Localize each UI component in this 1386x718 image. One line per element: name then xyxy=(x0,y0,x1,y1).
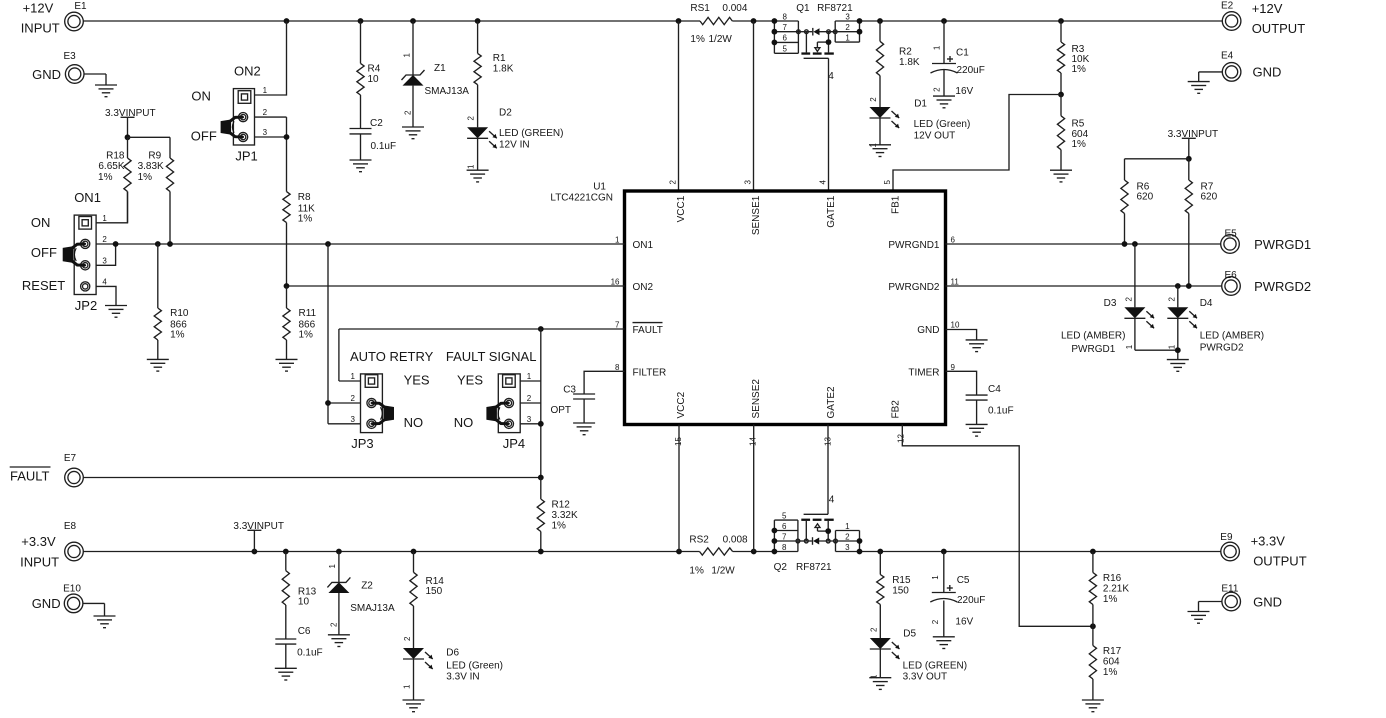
svg-text:JP1: JP1 xyxy=(235,149,257,164)
svg-text:3.3V IN: 3.3V IN xyxy=(446,671,479,682)
turret E11 GND xyxy=(1199,583,1282,611)
ground at R5 xyxy=(1050,170,1072,182)
svg-text:1: 1 xyxy=(403,53,412,58)
zener Z1 SMAJ13A xyxy=(402,21,470,127)
LED D3 PWRGD1 xyxy=(1061,244,1178,355)
svg-text:LED (GREEN): LED (GREEN) xyxy=(499,128,563,139)
wire U1 pin 10 GND xyxy=(946,330,977,340)
LED D4 PWRGD2 xyxy=(1167,286,1264,360)
svg-text:1: 1 xyxy=(845,522,850,531)
svg-text:2: 2 xyxy=(330,622,339,627)
LED D5 3.3V OUT xyxy=(870,627,968,683)
svg-text:LED (AMBER): LED (AMBER) xyxy=(1061,331,1125,342)
resistor R8 11K 1% xyxy=(283,192,315,286)
ground at D2 xyxy=(467,170,489,182)
node 3.3VINPUT label bottom xyxy=(233,521,284,552)
svg-text:1%: 1% xyxy=(98,172,113,183)
svg-text:3: 3 xyxy=(845,543,850,552)
svg-text:10: 10 xyxy=(368,74,380,85)
resistor RS1 0.004 1% 1/2W xyxy=(690,3,747,45)
wire TIMER net pin 9 xyxy=(946,371,977,395)
ground at Z1 xyxy=(402,127,424,139)
wire VCC1 stub pin 2 xyxy=(678,21,680,190)
ground at E4 xyxy=(1188,82,1210,94)
svg-text:Q1: Q1 xyxy=(796,3,810,14)
svg-text:1%: 1% xyxy=(1103,594,1118,605)
ground at U1 pin 10 xyxy=(966,340,988,352)
svg-text:7: 7 xyxy=(782,532,787,541)
ground at Z2 xyxy=(328,635,350,647)
resistor R10 866 1% xyxy=(154,244,189,359)
svg-text:1/2W: 1/2W xyxy=(709,34,733,45)
LED D1 12V OUT xyxy=(869,97,970,148)
svg-text:2: 2 xyxy=(669,180,678,185)
turret E3 GND xyxy=(32,51,106,85)
svg-text:Q2: Q2 xyxy=(774,562,788,573)
svg-text:R5: R5 xyxy=(1072,119,1085,130)
svg-text:VCC1: VCC1 xyxy=(676,195,687,222)
svg-text:2: 2 xyxy=(527,394,532,403)
svg-text:10: 10 xyxy=(951,321,960,330)
svg-text:+12V: +12V xyxy=(23,1,54,16)
jumper JP4 FAULT SIGNAL xyxy=(446,349,537,451)
svg-text:3: 3 xyxy=(845,12,850,21)
svg-text:8: 8 xyxy=(782,12,787,21)
wire JP2 pin3 to ON1 net xyxy=(96,244,116,265)
svg-text:3: 3 xyxy=(351,415,356,424)
svg-text:0.1uF: 0.1uF xyxy=(371,141,397,152)
wire +12V output rail xyxy=(860,18,1223,24)
ground at D5 xyxy=(869,678,891,690)
svg-text:SMAJ13A: SMAJ13A xyxy=(425,86,470,97)
ground at C6 xyxy=(275,668,297,680)
svg-text:SENSE1: SENSE1 xyxy=(751,195,762,235)
svg-text:E3: E3 xyxy=(64,51,77,62)
svg-text:PWRGD1: PWRGD1 xyxy=(1254,237,1311,252)
svg-text:7: 7 xyxy=(615,321,620,330)
svg-text:220uF: 220uF xyxy=(957,65,985,76)
node 3.3VINPUT label left xyxy=(105,108,170,140)
svg-text:FAULT SIGNAL: FAULT SIGNAL xyxy=(446,349,537,364)
svg-text:PWRGND2: PWRGND2 xyxy=(888,282,940,293)
svg-text:16: 16 xyxy=(611,278,620,287)
capacitor C1 220uF 16V xyxy=(931,21,985,97)
svg-text:3: 3 xyxy=(102,256,107,265)
svg-text:INPUT: INPUT xyxy=(20,554,59,569)
svg-text:R2: R2 xyxy=(899,47,912,58)
svg-text:6: 6 xyxy=(782,34,787,43)
svg-text:RF8721: RF8721 xyxy=(796,562,832,573)
svg-text:16V: 16V xyxy=(955,616,973,627)
wire +12V input rail xyxy=(83,18,774,24)
wire JP2 pin1 to R18 xyxy=(96,192,127,223)
svg-text:12V OUT: 12V OUT xyxy=(914,131,956,142)
U1 pin numbers xyxy=(611,180,960,447)
svg-text:2: 2 xyxy=(467,116,476,121)
U1 left pin names xyxy=(633,240,667,379)
Q1 MOSFET body xyxy=(797,28,838,55)
svg-text:3.32K: 3.32K xyxy=(552,510,578,521)
svg-text:OFF: OFF xyxy=(191,129,217,144)
svg-text:D6: D6 xyxy=(446,648,459,659)
svg-text:LED (AMBER): LED (AMBER) xyxy=(1200,331,1264,342)
svg-text:7: 7 xyxy=(782,23,787,32)
svg-text:C3: C3 xyxy=(563,385,576,396)
svg-text:R17: R17 xyxy=(1103,646,1122,657)
resistor R18 6.65K 1% xyxy=(98,137,131,223)
ground at R17 xyxy=(1082,700,1104,712)
wire +3.3V input rail xyxy=(83,549,774,555)
wire +3.3V output rail xyxy=(860,549,1221,555)
resistor R1 1.8K xyxy=(474,21,514,127)
svg-text:1: 1 xyxy=(1125,344,1134,349)
svg-text:10: 10 xyxy=(298,596,310,607)
wire FAULT turret net xyxy=(83,475,543,481)
svg-text:1/2W: 1/2W xyxy=(711,566,735,577)
svg-text:1: 1 xyxy=(403,684,412,689)
svg-text:FAULT: FAULT xyxy=(10,469,50,484)
node 3.3VINPUT label right xyxy=(1125,129,1219,180)
svg-text:E2: E2 xyxy=(1221,1,1234,12)
svg-text:+3.3V: +3.3V xyxy=(1251,534,1286,549)
turret E1 +12V INPUT xyxy=(21,1,87,36)
wire JP2 pin4 to ground xyxy=(96,286,116,305)
svg-text:GND: GND xyxy=(32,596,61,611)
svg-text:R16: R16 xyxy=(1103,573,1122,584)
svg-text:R15: R15 xyxy=(892,575,911,586)
svg-text:1: 1 xyxy=(527,372,532,381)
svg-text:ON2: ON2 xyxy=(234,64,261,79)
svg-text:16V: 16V xyxy=(955,86,973,97)
svg-text:3.83K: 3.83K xyxy=(138,161,164,172)
svg-text:PWRGND1: PWRGND1 xyxy=(888,240,940,251)
Q2 source bus pins 5,6,7,8 xyxy=(772,511,798,554)
resistor R11 866 1% xyxy=(283,286,317,359)
ground at D1 xyxy=(869,145,891,157)
wire FB1 net xyxy=(893,95,1061,191)
svg-text:FAULT: FAULT xyxy=(633,325,663,336)
svg-text:GND: GND xyxy=(32,67,61,82)
wire PWRGD2 net xyxy=(946,283,1222,289)
svg-text:E10: E10 xyxy=(63,584,81,595)
svg-text:FILTER: FILTER xyxy=(633,368,667,379)
svg-text:4: 4 xyxy=(829,495,835,506)
svg-text:ON1: ON1 xyxy=(633,240,654,251)
svg-text:E7: E7 xyxy=(64,453,77,464)
svg-text:0.008: 0.008 xyxy=(723,534,748,545)
svg-text:+12V: +12V xyxy=(1252,1,1283,16)
svg-text:2: 2 xyxy=(1125,297,1134,302)
svg-text:INPUT: INPUT xyxy=(21,21,60,36)
svg-text:GND: GND xyxy=(1253,65,1282,80)
svg-text:C6: C6 xyxy=(298,626,311,637)
svg-text:150: 150 xyxy=(892,586,909,597)
LED D6 3.3V IN xyxy=(403,636,503,700)
svg-text:RESET: RESET xyxy=(22,278,65,293)
svg-text:RS1: RS1 xyxy=(690,3,710,14)
svg-text:JP2: JP2 xyxy=(75,298,97,313)
svg-text:4: 4 xyxy=(819,180,828,185)
wire PWRGD1 net xyxy=(946,241,1221,247)
svg-text:4: 4 xyxy=(102,277,107,286)
svg-text:D4: D4 xyxy=(1200,298,1213,309)
svg-text:1%: 1% xyxy=(1072,139,1087,150)
ground at E3 xyxy=(95,85,117,97)
capacitor C2 0.1uF xyxy=(350,118,397,160)
svg-text:E9: E9 xyxy=(1220,532,1233,543)
svg-text:1: 1 xyxy=(467,164,476,169)
svg-text:D3: D3 xyxy=(1104,298,1117,309)
resistor R13 10 xyxy=(282,552,316,640)
svg-text:D5: D5 xyxy=(903,629,916,640)
svg-text:1%: 1% xyxy=(170,330,185,341)
op-amp U1 LTC4221CGN hot swap controller body xyxy=(550,182,945,425)
svg-text:2.21K: 2.21K xyxy=(1103,584,1129,595)
svg-text:2: 2 xyxy=(263,108,268,117)
ground at R10 xyxy=(147,359,169,371)
svg-text:5: 5 xyxy=(782,45,787,54)
svg-text:3.3V OUT: 3.3V OUT xyxy=(903,672,947,683)
svg-text:E4: E4 xyxy=(1221,51,1234,62)
turret E2 +12V OUTPUT xyxy=(1221,1,1305,37)
wire GATE2 stub pin 13 xyxy=(827,425,829,515)
svg-text:ON2: ON2 xyxy=(633,282,654,293)
wire SENSE2 stub pin 14 xyxy=(753,425,755,552)
wire JP3 pins 2,3 to ON1 net xyxy=(325,244,360,424)
ground at C1 xyxy=(933,96,955,108)
resistor R16 2.21K 1% xyxy=(1089,552,1129,627)
svg-text:ON: ON xyxy=(191,89,211,104)
svg-text:GATE1: GATE1 xyxy=(826,195,837,227)
svg-text:R4: R4 xyxy=(368,64,381,75)
resistor R15 150 xyxy=(877,552,911,639)
svg-text:3: 3 xyxy=(744,180,753,185)
wire FILTER net pin 8 xyxy=(584,371,624,394)
svg-text:GND: GND xyxy=(1253,594,1282,609)
svg-text:ON: ON xyxy=(31,215,51,230)
svg-text:0.1uF: 0.1uF xyxy=(297,647,323,658)
svg-text:R11: R11 xyxy=(299,308,317,319)
wire SENSE1 stub pin 3 xyxy=(753,21,755,190)
svg-text:AUTO RETRY: AUTO RETRY xyxy=(350,349,434,364)
svg-text:1: 1 xyxy=(615,236,620,245)
transistor Q1 RF8721 xyxy=(796,3,853,14)
turret E6 PWRGD2 xyxy=(1222,270,1311,295)
resistor RS2 0.008 1% 1/2W xyxy=(689,534,748,576)
svg-text:NO: NO xyxy=(454,415,474,430)
svg-text:1%: 1% xyxy=(689,566,704,577)
svg-text:2: 2 xyxy=(932,87,941,92)
resistor R12 3.32K 1% xyxy=(537,478,578,552)
Q2 MOSFET body xyxy=(796,519,837,545)
ground at C5 xyxy=(933,637,955,649)
svg-text:3: 3 xyxy=(527,415,532,424)
svg-text:NO: NO xyxy=(404,415,424,430)
svg-text:1%: 1% xyxy=(298,214,313,225)
node FB1 divider junction xyxy=(1058,92,1064,98)
svg-text:Z1: Z1 xyxy=(434,63,446,74)
svg-text:6.65K: 6.65K xyxy=(98,161,124,172)
svg-text:E8: E8 xyxy=(64,521,77,532)
svg-text:620: 620 xyxy=(1137,191,1154,202)
ground at JP2 pin4 xyxy=(105,306,127,318)
svg-text:PWRGD2: PWRGD2 xyxy=(1200,343,1244,354)
svg-text:YES: YES xyxy=(457,373,483,388)
svg-text:2: 2 xyxy=(1167,297,1176,302)
svg-text:2: 2 xyxy=(931,619,940,624)
svg-text:OUTPUT: OUTPUT xyxy=(1252,21,1306,36)
svg-text:R18: R18 xyxy=(106,151,125,162)
wire JP1 pin1 to +12V rail xyxy=(255,21,287,95)
svg-text:JP4: JP4 xyxy=(503,436,525,451)
svg-text:E1: E1 xyxy=(74,1,87,12)
svg-text:1%: 1% xyxy=(138,172,153,183)
svg-text:1.8K: 1.8K xyxy=(899,57,920,68)
svg-text:3: 3 xyxy=(263,128,268,137)
svg-text:1: 1 xyxy=(932,45,941,50)
svg-text:0.1uF: 0.1uF xyxy=(988,406,1014,417)
resistor R5 604 1% xyxy=(1057,95,1088,171)
svg-text:12V IN: 12V IN xyxy=(499,139,530,150)
ground at C4 xyxy=(966,424,988,436)
ground at C3 xyxy=(573,423,595,435)
svg-text:220uF: 220uF xyxy=(957,595,985,606)
wire JP1 pins 2,3 to R8 xyxy=(255,117,290,192)
ground at C2 xyxy=(350,160,372,172)
svg-text:FB1: FB1 xyxy=(891,195,902,214)
wire FAULT net pin 7 xyxy=(339,326,625,381)
svg-text:D2: D2 xyxy=(499,108,512,119)
wire VCC2 stub pin 15 xyxy=(678,425,680,552)
svg-text:R12: R12 xyxy=(552,500,571,511)
svg-text:1: 1 xyxy=(931,575,940,580)
svg-text:C5: C5 xyxy=(957,575,970,586)
svg-text:2: 2 xyxy=(403,636,412,641)
svg-text:2: 2 xyxy=(869,97,878,102)
svg-text:1: 1 xyxy=(351,372,356,381)
svg-text:6: 6 xyxy=(782,522,787,531)
resistor R17 604 1% xyxy=(1089,626,1121,700)
svg-text:2: 2 xyxy=(404,110,413,115)
svg-text:R1: R1 xyxy=(493,53,506,64)
capacitor C4 0.1uF xyxy=(966,384,1014,424)
svg-text:E11: E11 xyxy=(1221,583,1238,594)
svg-text:150: 150 xyxy=(426,586,443,597)
resistor R2 1.8K xyxy=(876,21,920,107)
svg-text:YES: YES xyxy=(404,373,430,388)
svg-text:1: 1 xyxy=(102,214,107,223)
svg-text:LED (Green): LED (Green) xyxy=(446,661,503,672)
svg-text:R9: R9 xyxy=(148,151,161,162)
svg-text:D1: D1 xyxy=(914,99,927,110)
turret E9 +3.3V OUTPUT xyxy=(1220,532,1306,568)
transistor Q2 RF8721 xyxy=(774,562,832,573)
capacitor C3 OPT xyxy=(550,385,595,424)
turret E7 FAULT xyxy=(10,453,84,487)
turret E4 GND xyxy=(1199,51,1282,82)
svg-text:TIMER: TIMER xyxy=(908,368,939,379)
svg-text:GND: GND xyxy=(917,325,939,336)
svg-text:1.8K: 1.8K xyxy=(493,64,514,75)
jumper JP1 ON2 select xyxy=(191,64,268,164)
turret E10 GND xyxy=(32,584,105,617)
svg-text:PWRGD2: PWRGD2 xyxy=(1254,279,1311,294)
wire ON2 net xyxy=(284,283,625,289)
turret E8 +3.3V INPUT xyxy=(20,521,83,570)
wire JP4 pins to FAULT vertical xyxy=(520,329,544,478)
svg-text:2: 2 xyxy=(870,627,879,632)
Q2 gate pin 4 xyxy=(804,495,835,515)
svg-text:E6: E6 xyxy=(1225,270,1238,281)
svg-text:2: 2 xyxy=(102,235,107,244)
svg-text:12: 12 xyxy=(897,434,906,443)
svg-text:5: 5 xyxy=(883,180,892,185)
ground at R11 xyxy=(276,359,298,371)
svg-text:PWRGD1: PWRGD1 xyxy=(1071,344,1115,355)
svg-text:C1: C1 xyxy=(956,47,969,58)
svg-text:FB2: FB2 xyxy=(891,400,902,419)
resistor R7 620 xyxy=(1185,159,1217,286)
svg-text:1%: 1% xyxy=(552,521,567,532)
svg-text:R10: R10 xyxy=(170,308,189,319)
svg-text:Z2: Z2 xyxy=(361,581,373,592)
svg-text:2: 2 xyxy=(845,532,850,541)
svg-text:JP3: JP3 xyxy=(351,436,373,451)
zener Z2 SMAJ13A xyxy=(327,552,395,635)
svg-text:1%: 1% xyxy=(690,34,705,45)
resistor R9 3.83K 1% xyxy=(138,137,174,244)
ground at D4 xyxy=(1167,360,1189,372)
capacitor C6 0.1uF xyxy=(275,626,322,668)
svg-text:SMAJ13A: SMAJ13A xyxy=(350,603,395,614)
svg-text:1%: 1% xyxy=(1103,667,1118,678)
Q2 drain bus pins 1,2,3 xyxy=(836,522,863,555)
svg-text:5: 5 xyxy=(782,511,787,520)
resistor R4 10 xyxy=(357,21,381,129)
resistor R14 150 xyxy=(410,552,444,649)
svg-text:1%: 1% xyxy=(1072,64,1087,75)
svg-text:1: 1 xyxy=(845,34,850,43)
svg-text:604: 604 xyxy=(1103,657,1120,668)
svg-text:1: 1 xyxy=(263,86,268,95)
wire JP3 pin1 xyxy=(339,380,361,382)
svg-text:2: 2 xyxy=(351,394,356,403)
svg-text:6: 6 xyxy=(951,236,956,245)
Q1 drain bus pins 3,2,1 xyxy=(835,12,862,42)
svg-text:OUTPUT: OUTPUT xyxy=(1253,554,1307,569)
svg-text:LED (GREEN): LED (GREEN) xyxy=(903,661,967,672)
svg-text:1%: 1% xyxy=(299,330,314,341)
svg-text:1: 1 xyxy=(1167,344,1176,349)
wire FB2 net pin 12 xyxy=(902,425,1096,630)
svg-text:E5: E5 xyxy=(1225,228,1238,239)
ground at D6 xyxy=(403,700,425,712)
svg-text:SENSE2: SENSE2 xyxy=(751,379,762,419)
ground at E10 xyxy=(94,616,116,628)
LED D2 12V IN xyxy=(467,108,564,171)
svg-text:R8: R8 xyxy=(298,192,311,203)
resistor R6 620 xyxy=(1121,180,1154,244)
Q1 source bus pins 8,7,6,5 xyxy=(772,12,799,53)
Q1 gate pin 4 xyxy=(804,58,835,82)
svg-text:620: 620 xyxy=(1201,191,1218,202)
svg-text:LTC4221CGN: LTC4221CGN xyxy=(550,193,613,204)
svg-text:VCC2: VCC2 xyxy=(676,391,687,418)
jumper JP2 ON1 select xyxy=(22,190,108,313)
wire GATE1 stub pin 4 xyxy=(828,58,830,190)
svg-text:0.004: 0.004 xyxy=(722,3,747,14)
U1 right pin names xyxy=(888,240,940,379)
